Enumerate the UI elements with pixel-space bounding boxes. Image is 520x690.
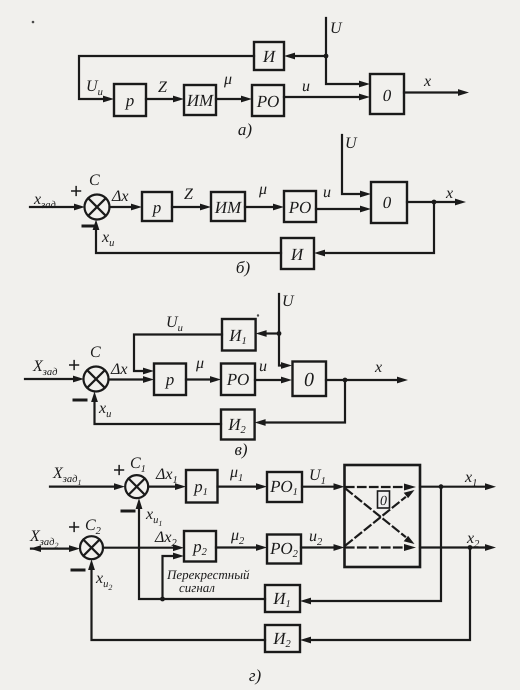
svg-text:И1: И1	[272, 589, 291, 610]
wire IM to RO (b)	[245, 204, 284, 211]
node junction x2 (g)	[468, 545, 473, 550]
svg-text:Δх: Δх	[110, 361, 128, 378]
svg-text:ИМ: ИМ	[214, 198, 242, 217]
svg-text:μ: μ	[223, 71, 232, 88]
block RO2 (g)	[267, 535, 301, 564]
wire RO to O (a)	[284, 94, 370, 101]
svg-text:а): а)	[238, 120, 253, 139]
svg-text:+: +	[68, 354, 80, 377]
svg-text:0: 0	[383, 193, 392, 212]
wire I to C (b)	[93, 220, 281, 254]
svg-text:C: C	[89, 172, 100, 189]
wire cross signal to p2 (g)	[163, 553, 185, 599]
svg-text:u: u	[323, 184, 331, 201]
svg-text:РО: РО	[288, 198, 311, 217]
wire I1 to C1 (g)	[136, 498, 265, 599]
svg-text:μ2: μ2	[230, 527, 245, 547]
wire output x1 (g)	[420, 483, 496, 490]
label minus2 (g)	[72, 569, 84, 572]
svg-text:C2: C2	[85, 517, 102, 537]
svg-text:р1: р1	[193, 477, 208, 498]
svg-text:0: 0	[380, 494, 387, 509]
block RO1 (g)	[267, 472, 302, 502]
svg-text:И2: И2	[227, 415, 246, 436]
svg-text:u: u	[302, 78, 310, 95]
block IM (b)	[211, 192, 245, 221]
summing junction C2 (g)	[80, 536, 103, 559]
svg-text:б): б)	[236, 258, 251, 277]
wire input x_zad (b)	[30, 204, 85, 211]
svg-text:+: +	[70, 180, 82, 203]
svg-text:И: И	[262, 47, 277, 66]
svg-text:сигнал: сигнал	[179, 580, 215, 595]
block I2 (v)	[221, 410, 255, 440]
wire C2 to p2 (g)	[103, 544, 184, 551]
wire I2 to C (v)	[91, 392, 221, 425]
wire feedback to I (b)	[314, 202, 434, 256]
svg-text:0: 0	[304, 369, 314, 391]
block p (b)	[142, 192, 172, 221]
svg-text:хи1: хи1	[145, 506, 162, 528]
block I (b)	[281, 238, 314, 269]
svg-text:+: +	[113, 459, 125, 482]
block object box (g)	[345, 465, 421, 567]
wire U to I1 (v)	[256, 330, 279, 337]
svg-text:Z: Z	[184, 186, 194, 203]
svg-text:РО: РО	[226, 370, 249, 389]
svg-text:РО: РО	[256, 92, 279, 111]
svg-text:р2: р2	[192, 537, 208, 558]
wire feedback x1 to I1 (g)	[300, 487, 441, 605]
svg-text:Δх: Δх	[111, 188, 129, 205]
wire Uu loop from I1 to p (v)	[134, 335, 222, 375]
svg-text:р: р	[125, 91, 135, 110]
svg-text:Хзад: Хзад	[32, 358, 57, 378]
svg-text:Δх1: Δх1	[155, 466, 178, 486]
block I (a)	[254, 42, 284, 70]
block p (v)	[154, 364, 186, 396]
wire feedback to I2 (v)	[255, 380, 345, 426]
block O (a)	[370, 74, 404, 114]
svg-text:в): в)	[234, 440, 247, 459]
wire p to RO (v)	[186, 376, 221, 383]
svg-text:Uи: Uи	[86, 78, 103, 98]
wire RO to O (v)	[255, 377, 292, 384]
wire U supply drop (b)	[342, 135, 371, 197]
node junction x1 (g)	[439, 484, 444, 489]
svg-text:x: x	[423, 73, 431, 90]
svg-text:И2: И2	[272, 629, 291, 650]
block RO (v)	[221, 364, 255, 396]
label cross signal (g)	[166, 567, 250, 595]
block O small (g)	[378, 491, 390, 509]
wire output x2 (g)	[420, 544, 496, 551]
svg-text:хи: хи	[101, 229, 114, 249]
wire input x_zad2 (g)	[30, 545, 80, 552]
wire U supply drop (v)	[279, 294, 292, 369]
svg-text:Z: Z	[158, 79, 168, 96]
block p (a)	[114, 84, 146, 116]
svg-text:μ: μ	[258, 181, 267, 198]
wire dashed direct channel 1 (g)	[346, 484, 416, 491]
label minus1 (g)	[122, 510, 134, 513]
wire RO2 to object (g)	[301, 544, 345, 551]
svg-text:хи: хи	[98, 400, 111, 420]
block I2 (g)	[265, 625, 300, 652]
svg-text:C: C	[90, 344, 101, 361]
wire output x (v)	[326, 377, 408, 384]
block RO (a)	[252, 85, 284, 116]
svg-text:ИМ: ИМ	[186, 91, 214, 110]
svg-text:U: U	[282, 293, 295, 310]
summing junction C1 (g)	[125, 475, 148, 498]
svg-text:р: р	[152, 198, 162, 217]
svg-text:И1: И1	[228, 326, 247, 347]
svg-text:г): г)	[249, 666, 262, 685]
node junction after O (b)	[432, 200, 437, 205]
wire output x (b)	[407, 199, 466, 206]
svg-text:хи2: хи2	[95, 570, 112, 592]
svg-text:Хзад2: Хзад2	[29, 528, 58, 550]
svg-text:U: U	[330, 20, 343, 37]
node junction on U line (v)	[277, 331, 282, 336]
svg-text:Δх2: Δх2	[154, 529, 178, 549]
wire dashed cross up (g)	[346, 490, 415, 545]
wire output x (a)	[404, 89, 469, 96]
svg-text:Uи: Uи	[166, 314, 183, 334]
block p2 (g)	[184, 531, 216, 562]
svg-text:РО2: РО2	[269, 539, 298, 560]
wire feedback I to p (a)	[79, 56, 254, 102]
block O (v)	[293, 362, 327, 397]
wire input x_zad (v)	[25, 376, 84, 383]
svg-text:u2: u2	[309, 528, 323, 548]
node junction after O (v)	[343, 378, 348, 383]
svg-text:U: U	[345, 135, 358, 152]
block RO (b)	[284, 191, 316, 222]
wire U supply drop (a)	[326, 18, 370, 87]
wire C to p (v)	[109, 376, 155, 383]
wire RO to O (b)	[316, 206, 371, 213]
wire IM to RO (a)	[216, 96, 252, 103]
svg-text:C1: C1	[130, 455, 146, 475]
svg-text:И: И	[290, 245, 305, 264]
svg-text:р: р	[165, 370, 175, 389]
svg-text:U1: U1	[309, 467, 326, 487]
svg-text:+: +	[68, 516, 80, 539]
wire I2 to C2 (g)	[88, 559, 265, 640]
summing junction C (b)	[85, 195, 110, 220]
block O (b)	[371, 182, 407, 223]
svg-text:РО1: РО1	[269, 477, 298, 498]
label minus (v)	[74, 399, 86, 402]
svg-text:u: u	[259, 358, 267, 375]
node junction cross signal (g)	[160, 597, 165, 602]
svg-text:μ1: μ1	[229, 464, 243, 484]
wire C1 to p1 (g)	[148, 483, 186, 490]
speck	[32, 21, 35, 24]
svg-text:μ: μ	[195, 355, 204, 372]
label minus (b)	[83, 225, 95, 228]
wire input x_zad1 (g)	[50, 483, 125, 490]
summing junction C (v)	[84, 367, 109, 392]
wire feedback x2 to I2 (g)	[300, 548, 470, 644]
svg-text:x: x	[374, 359, 382, 376]
wire C to p (b)	[110, 204, 143, 211]
block I1 (v)	[222, 319, 256, 351]
wire dashed cross down (g)	[346, 489, 415, 544]
wire dashed direct channel 2 (g)	[346, 544, 416, 551]
svg-text:0: 0	[383, 86, 392, 105]
wire p to IM (a)	[146, 96, 184, 103]
block p1 (g)	[186, 470, 218, 503]
node junction on U line (a)	[324, 54, 329, 59]
block IM (a)	[184, 85, 216, 115]
wire p1 to RO1 (g)	[218, 483, 268, 490]
block I1 (g)	[265, 585, 300, 612]
wire p2 to RO2 (g)	[216, 544, 267, 551]
wire p to IM (b)	[172, 204, 211, 211]
wire RO1 to object (g)	[302, 483, 345, 490]
wire U to block I (a)	[284, 53, 326, 60]
speck	[257, 314, 259, 316]
svg-text:Хзад1: Хзад1	[52, 465, 81, 487]
svg-text:x: x	[445, 185, 453, 202]
